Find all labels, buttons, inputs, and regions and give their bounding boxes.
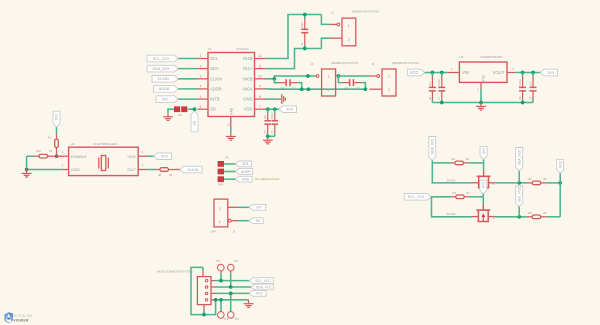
junction rail at VSS — [479, 101, 483, 105]
svg-text:1uF: 1uF — [264, 115, 267, 120]
svg-text:JP1: JP1 — [225, 157, 230, 160]
svg-text:CLKIN: CLKIN — [210, 76, 222, 81]
net flag VCC vertical — [557, 159, 564, 173]
resistor R1 pullup vertical — [56, 134, 58, 139]
pin stubs U1 right side pins 12-7 — [255, 58, 266, 60]
wire jumper left to ground corner — [168, 109, 174, 113]
wire ground rail under regulator — [432, 102, 533, 104]
wire U1 pin11 IN1A to lower rail — [266, 49, 322, 69]
wire J1 pin 2 row to SDA_VCC — [211, 286, 215, 288]
svg-text:DNP: DNP — [211, 230, 217, 233]
wire VDD row pin 7 — [266, 108, 280, 110]
wire 3V3 flag to resistor R1 — [56, 127, 58, 134]
svg-text:DNP: DNP — [218, 184, 224, 187]
svg-text:9: 9 — [259, 85, 261, 89]
wire top rail right end down to J2 pin 1 — [321, 15, 330, 25]
resistor R6 pullup SCL 3V3 side — [431, 196, 451, 198]
svg-text:100nF: 100nF — [519, 78, 522, 86]
junction VOUT at C9 — [531, 71, 535, 75]
IC U1 LDC1612 body — [208, 53, 255, 117]
svg-text:IN0B: IN0B — [243, 76, 253, 81]
svg-text:CLKIN: CLKIN — [158, 77, 169, 81]
wire INT net from flag to U1 pin 5 — [178, 98, 198, 100]
crystal glyph inside U2 — [98, 158, 100, 169]
net flag SCL_VCC vertical — [516, 186, 523, 207]
testpoint TP4 circle — [228, 312, 235, 319]
svg-text:4: 4 — [200, 85, 202, 89]
svg-text:INTB: INTB — [210, 97, 220, 102]
svg-text:SDA_VCC: SDA_VCC — [256, 285, 273, 289]
net flag SCL_VCC at J1 — [249, 278, 273, 284]
net flag SDA_VCC at J1 — [251, 284, 273, 290]
logo hexagon — [4, 312, 13, 323]
solder jumper JP2 pad A — [174, 106, 180, 112]
svg-text:10K: 10K — [451, 158, 456, 161]
net flag SDA_VCC vertical — [516, 148, 523, 172]
svg-text:1: 1 — [200, 54, 202, 58]
svg-text:10: 10 — [258, 75, 262, 79]
U3 VSS pin stub down — [480, 82, 482, 89]
svg-text:3V3: 3V3 — [286, 107, 293, 111]
ground at U1 PAD — [230, 133, 232, 136]
svg-text:3V3: 3V3 — [482, 182, 486, 188]
svg-text:TP2: TP2 — [234, 260, 239, 263]
svg-text:OUT: OUT — [127, 167, 136, 172]
wires JP1 pads to flags — [224, 163, 236, 165]
wire OUT to resistor R3 — [147, 169, 156, 171]
wire CLKIN net from flag to U1 pin 3 — [178, 78, 198, 80]
junction SD node — [193, 107, 197, 111]
svg-text:10K: 10K — [528, 178, 533, 181]
svg-text:I2C Address=0x2A: I2C Address=0x2A — [255, 177, 280, 181]
svg-text:VIN: VIN — [462, 70, 469, 75]
ground at oscillator — [26, 170, 28, 173]
svg-text:SD: SD — [210, 107, 216, 112]
net flag 3V3 at JP1 — [236, 161, 252, 167]
svg-text:GND: GND — [242, 177, 250, 181]
oscillator U2 body — [69, 147, 139, 175]
svg-text:U1: U1 — [208, 47, 212, 51]
resistor R5 pullup SDA VCC side — [527, 182, 533, 184]
wire VOUT to 3V3 flag — [515, 72, 540, 74]
svg-text:LDC1612: LDC1612 — [236, 47, 249, 51]
wire 3V3 to Q2 gate — [482, 194, 484, 197]
net flag GND at JP1 — [236, 176, 253, 182]
junction VOUT at C8 — [521, 71, 525, 75]
svg-text:8: 8 — [259, 95, 261, 99]
header J3 body — [322, 69, 336, 96]
svg-text:11: 11 — [258, 64, 262, 68]
svg-text:PAD: PAD — [229, 107, 233, 114]
svg-text:10M: 10M — [36, 150, 41, 153]
svg-text:18pF: 18pF — [301, 22, 304, 28]
net flag VCC at J1 — [249, 291, 266, 297]
wire SCL_3V3 to Q2 source — [432, 197, 472, 217]
svg-text:1nF: 1nF — [344, 87, 349, 90]
net flag 3V3 at oscillator VDD — [154, 153, 172, 160]
J5 pin 2 stub — [228, 206, 238, 208]
J4 pin 2 stub — [369, 88, 382, 90]
junction VIN at C7 — [440, 71, 444, 75]
solder jumper JP2 pad B — [181, 106, 187, 112]
svg-text:SCL_VCC: SCL_VCC — [255, 279, 271, 283]
J1 pin circles — [205, 279, 207, 281]
junction SDA_VCC node — [517, 181, 521, 185]
capacitor C8 output — [522, 73, 524, 77]
wire U2 pin 2 to ground — [27, 169, 62, 171]
svg-text:CLKIN: CLKIN — [187, 168, 198, 172]
svg-text:TP4: TP4 — [235, 318, 240, 321]
J3 pin 1 circle — [316, 75, 319, 78]
svg-text:2: 2 — [200, 64, 202, 68]
svg-text:SDA: SDA — [210, 66, 219, 71]
junction caps bottom — [266, 134, 270, 138]
resistor R7 pullup SCL VCC side — [527, 216, 533, 218]
svg-text:SD: SD — [256, 219, 261, 223]
junction bottom rail at C1 — [303, 47, 307, 51]
wire SDA_3V3 to Q1 source — [432, 163, 471, 183]
wire ground corner left of oscillator — [26, 156, 28, 169]
wire testpoint TP3 to pin4 row — [220, 300, 222, 312]
svg-text:13: 13 — [227, 123, 231, 127]
svg-text:3V3: 3V3 — [242, 162, 248, 166]
capacitor C2 series branch left — [274, 79, 278, 83]
svg-text:2N7002: 2N7002 — [447, 179, 456, 182]
svg-text:VCC: VCC — [410, 70, 419, 75]
net flag 3V3 at SDA pullup — [480, 146, 487, 159]
junction rail at C8 — [521, 101, 525, 105]
svg-text:HEADER-DIP-02/TP/XS: HEADER-DIP-02/TP/XS — [392, 62, 419, 65]
U2 pin 4 VDD stub — [138, 155, 147, 157]
testpoint TP3 circle — [218, 312, 225, 319]
testpoint TP2 circle — [228, 264, 235, 271]
svg-text:SCL_3V3: SCL_3V3 — [153, 57, 169, 61]
svg-text:VIEWER: VIEWER — [13, 318, 29, 322]
junction IN0B at J3 right — [337, 74, 341, 78]
svg-text:SD: SD — [193, 120, 197, 125]
svg-text:100nF: 100nF — [438, 78, 441, 86]
wire U1 pin10 IN0B to junction — [266, 76, 317, 79]
svg-text:6: 6 — [200, 105, 202, 109]
junction VCC rail top — [558, 181, 562, 185]
transistor Q2 MOSFET — [476, 209, 490, 211]
U2 pin 1 stub — [57, 155, 69, 157]
svg-text:SCL: SCL — [210, 56, 219, 61]
svg-text:XC6206P332MR: XC6206P332MR — [480, 55, 503, 59]
svg-text:12: 12 — [258, 54, 262, 58]
wire 3V3 to Q1 gate — [483, 160, 485, 171]
svg-text:GND: GND — [243, 97, 252, 102]
wire J3 right to J4 pin 1 — [338, 75, 369, 77]
svg-text:SDA_VCC: SDA_VCC — [517, 149, 521, 166]
net flag SD vertical below junction — [191, 111, 198, 132]
solder jumper JP1 pads — [218, 161, 224, 167]
svg-text:VDD: VDD — [244, 107, 253, 112]
svg-text:SCL_3V3: SCL_3V3 — [408, 195, 424, 199]
wire R7 to VCC rail corner — [546, 216, 560, 218]
wire VCC rail vertical — [559, 183, 561, 217]
svg-text:3V3: 3V3 — [161, 154, 168, 158]
wire SDA_VCC flag to node — [518, 171, 520, 183]
testpoint TP1 circle — [218, 264, 225, 271]
svg-text:INT: INT — [162, 97, 169, 101]
net flag SDA_3V3 vertical — [429, 137, 436, 161]
svg-text:INT: INT — [257, 206, 262, 210]
connector J1 body — [197, 277, 211, 305]
junction VDD at C4 — [266, 107, 270, 111]
capacitor C7 input — [441, 73, 443, 77]
net flag 3V3 above oscillator enable — [53, 111, 60, 127]
svg-text:1uF: 1uF — [529, 81, 532, 86]
junction SCL_VCC node — [517, 215, 521, 219]
wire testpoint TP2 to pin2 row — [230, 273, 232, 287]
svg-text:IN1A: IN1A — [243, 66, 253, 71]
wire Q2 drain to SCL_VCC node — [496, 216, 527, 218]
net flag INT at U1 pin 5 — [156, 96, 178, 103]
net flag SCL_3V3 — [404, 194, 431, 201]
wire SDA net from flag to U1 pin 2 — [178, 68, 198, 70]
junction rail at C7 — [440, 101, 444, 105]
wire SCL_VCC flag to node — [518, 207, 520, 217]
junction IN0B mid — [306, 74, 310, 78]
wire VCC flag down to rail — [559, 173, 561, 183]
capacitor C3 series branch right — [338, 76, 342, 83]
ground at U1 pin 8 — [278, 98, 281, 100]
U3 VOUT pin stub — [507, 72, 515, 74]
svg-text:0R: 0R — [158, 174, 161, 177]
net flag INT at J5 — [249, 204, 266, 210]
pin stubs U1 left side pins 1-6 — [198, 58, 209, 60]
svg-text:10K: 10K — [528, 212, 533, 215]
wire ADDR net from flag to U1 pin 4 — [178, 88, 198, 90]
svg-text:TP3: TP3 — [224, 318, 229, 321]
svg-text:SDA_3V3: SDA_3V3 — [431, 139, 435, 154]
header J4 body — [382, 69, 396, 96]
wire R5 to VCC rail — [546, 182, 560, 184]
wire SCL net from flag to U1 pin 1 — [178, 58, 198, 60]
svg-text:ENABLE: ENABLE — [71, 154, 87, 159]
svg-text:ADDR: ADDR — [159, 87, 170, 91]
J5 pin 1 circle and stub — [228, 219, 231, 222]
svg-text:U2: U2 — [71, 142, 75, 146]
svg-text:HEADER-DIP-02/TP/XS: HEADER-DIP-02/TP/XS — [352, 10, 379, 13]
svg-text:VCC: VCC — [558, 160, 562, 168]
wire VCC to U3 VIN — [425, 72, 448, 74]
ground below U3 VSS — [480, 103, 482, 106]
svg-text:2N7002: 2N7002 — [447, 213, 456, 216]
net flag ADDR at U1 pin 4 — [154, 86, 179, 93]
transistor Q1 MOSFET — [477, 175, 491, 177]
svg-text:HEADER-DIP-02/TP/XS: HEADER-DIP-02/TP/XS — [331, 62, 358, 65]
wire VDD to 3V3 flag — [147, 155, 154, 157]
svg-text:3V3: 3V3 — [482, 148, 486, 154]
ground at SD jumper — [167, 113, 169, 116]
junction ground node — [25, 168, 29, 172]
capacitor C6 input — [431, 73, 433, 77]
wire testpoint TP4 to pin3 row — [230, 293, 232, 311]
header J5 body — [214, 199, 228, 227]
U3 VIN pin stub — [448, 72, 459, 74]
wire testpoint TP1 to pin1 row — [220, 273, 222, 281]
wire SDA_3V3 down to pullup row — [431, 161, 433, 163]
net flag ADDR at JP1 — [236, 169, 253, 175]
wire J1 pin 4 row to ground — [211, 299, 215, 301]
wire SD row from jumper to junction — [188, 108, 195, 110]
ground at J1 pin 4 — [248, 300, 250, 303]
svg-text:VCC: VCC — [256, 292, 264, 296]
svg-text:MICRO-CONNECTION-SYSTEM: MICRO-CONNECTION-SYSTEM — [157, 271, 192, 274]
capacitor C9 output — [532, 73, 534, 77]
capacitor C5 VDD decoupling — [274, 109, 276, 113]
ground below VDD caps — [267, 136, 269, 139]
junction IN0A at cap C2 — [300, 87, 304, 91]
svg-text:XO-32.768KHZ-EXS: XO-32.768KHZ-EXS — [93, 142, 117, 146]
resistor R2 to ground — [27, 155, 34, 157]
svg-text:100nF: 100nF — [271, 112, 274, 120]
svg-text:IN1B: IN1B — [243, 56, 253, 61]
capacitor C1 parallel on IN1 — [304, 15, 306, 19]
junction top rail at C1 — [303, 13, 307, 17]
wire J1 pin 3 row to VCC — [211, 292, 215, 294]
svg-text:TP1: TP1 — [216, 260, 221, 263]
svg-text:ADDR: ADDR — [241, 170, 251, 174]
wire J1 pin 1 row to SCL_VCC — [211, 280, 215, 282]
svg-text:7: 7 — [259, 105, 261, 109]
junction IN0A second — [307, 87, 311, 91]
svg-text:10K: 10K — [452, 192, 457, 195]
svg-text:IN0A: IN0A — [243, 86, 253, 91]
svg-text:GND: GND — [71, 167, 80, 172]
net flag 3V3 at U1 VDD — [279, 106, 296, 113]
svg-text:SDA_3V3: SDA_3V3 — [152, 67, 169, 71]
svg-text:3V3: 3V3 — [55, 114, 59, 120]
svg-text:U3: U3 — [460, 55, 464, 59]
junction IN0A at J4 — [364, 87, 368, 91]
J1 top pin stub — [202, 272, 204, 277]
junction bottom loop — [202, 313, 206, 317]
regulator U3 body — [459, 62, 507, 82]
resistor R4 pullup SDA 3V3 side — [432, 162, 450, 164]
J2 pin 2 stub — [330, 37, 342, 39]
svg-text:1uF: 1uF — [429, 81, 432, 86]
junction pin4 loop — [214, 298, 218, 302]
svg-text:3: 3 — [200, 75, 202, 79]
net flag CLKIN at U1 pin 3 — [152, 76, 178, 83]
resistor R3 series clock — [156, 169, 160, 171]
svg-text:3V3: 3V3 — [547, 71, 554, 75]
capacitor C4 VDD decoupling — [267, 109, 269, 113]
svg-text:ADDR: ADDR — [210, 86, 222, 91]
U2 pin 3 OUT stub — [138, 169, 147, 171]
header J2 body — [342, 18, 356, 46]
net flag 3V3 at SCL pullup overlapping Q1 — [480, 180, 487, 194]
net flag SDA_3V3 at U1 pin 2 — [147, 65, 178, 72]
junction VDD at C5 — [273, 107, 277, 111]
svg-text:5: 5 — [200, 95, 202, 99]
junction oscillator enable node — [55, 154, 59, 158]
net flag CLKIN at oscillator output — [180, 166, 202, 173]
net flag 3V3 at regulator output — [540, 69, 557, 76]
J2 pin 1 stub with circle — [330, 23, 337, 25]
U1 PAD pin 13 stub — [230, 117, 232, 128]
net flag VCC input — [407, 69, 424, 76]
svg-text:VOUT: VOUT — [493, 70, 505, 75]
svg-text:JP2: JP2 — [178, 114, 183, 117]
svg-text:VSS: VSS — [481, 74, 485, 81]
wire cap bottoms join — [268, 135, 275, 137]
wire U1 pin12 IN1B to top rail — [266, 15, 322, 59]
wire U1 pin9 IN0A row — [266, 88, 366, 90]
wire lower rail up to J2 pin 2 — [321, 38, 330, 48]
net flag SD at J5 — [249, 218, 263, 224]
J1 bottom pin stub — [203, 305, 205, 310]
wire top pin loop of J1 — [191, 267, 216, 314]
svg-text:VDD: VDD — [127, 154, 136, 159]
svg-text:SCL_VCC: SCL_VCC — [517, 186, 521, 202]
junction IN0B at cap branch — [273, 77, 277, 81]
wire Q1 drain to SDA_VCC node — [496, 182, 527, 184]
junction VIN at C6 — [431, 71, 435, 75]
net flag SCL_3V3 at U1 pin 1 — [147, 55, 178, 62]
